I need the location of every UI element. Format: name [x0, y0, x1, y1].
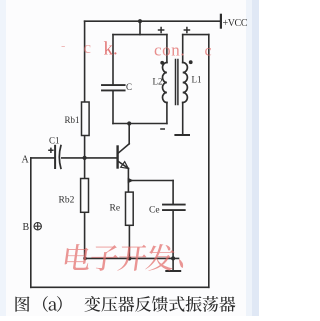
wire: rail drop to tank top: [139, 21, 141, 34]
wire: +VCC top rail: [85, 20, 221, 22]
watermark comma mark: [179, 259, 183, 268]
junction dot: Re/ground line: [127, 256, 131, 260]
resistor Rb1: [82, 102, 90, 136]
caption 图（a）变压器反馈式振荡器: [15, 296, 235, 312]
svg-text:L2: L2: [153, 77, 163, 87]
inductor L1 coil (4 bumps, bulge right): [183, 63, 188, 103]
transistor Q1 emitter arrowhead: [121, 162, 129, 169]
svg-text:k.: k.: [104, 39, 118, 60]
svg-text:C: C: [126, 82, 132, 92]
terminal B circled plus: [34, 223, 41, 230]
inductor L2 coil (4 bumps, bulge left): [163, 63, 167, 103]
wire: tank bottom: [113, 123, 167, 125]
svg-text:-: -: [61, 38, 65, 53]
wire: L1 bottom lead to ground bar: [182, 103, 184, 135]
svg-text:A: A: [22, 155, 30, 166]
svg-text:+VCC: +VCC: [223, 18, 248, 29]
wire: base node to transistor: [85, 157, 117, 159]
wire: L2 top lead: [166, 35, 168, 63]
wire: Ce top lead: [172, 181, 174, 205]
transistor Q1 emitter: [119, 162, 129, 169]
wire: Ce ground stub: [172, 258, 174, 271]
wire: tank left above C: [112, 35, 114, 85]
wire: emitter node to Ce: [128, 180, 173, 182]
resistor Re: [126, 192, 134, 225]
capacitor C plates: [102, 84, 125, 86]
svg-text:Rb2: Rb2: [59, 196, 75, 206]
ground bar under Ce: [166, 270, 180, 272]
plus mark at C1: [48, 148, 53, 153]
wire: Re bottom to ground line: [128, 225, 130, 258]
wire: Rb2 bottom to ground line: [84, 212, 86, 258]
wire: collector up to tank: [128, 124, 130, 144]
wire: Ce bottom lead: [172, 211, 174, 259]
junction dot: Ce/ground line: [171, 256, 175, 260]
polarity dot L2: [160, 61, 164, 65]
ground bar under L1: [175, 134, 189, 136]
wire: emitter down to Re: [127, 168, 129, 192]
capacitor Ce plates: [163, 204, 185, 206]
watermark 电子开发: [64, 244, 183, 271]
plus mark above L1: [184, 27, 191, 34]
wire: left drop from rail to Rb1: [84, 21, 86, 102]
capacitor C1 (polarized): straight plate: [54, 146, 56, 168]
VCC terminal bar: [220, 15, 222, 28]
svg-text:Re: Re: [110, 204, 121, 214]
svg-text:Rb1: Rb1: [65, 115, 80, 125]
svg-text:L1: L1: [192, 75, 202, 85]
wire: right branch down: [208, 35, 210, 288]
svg-text:Ce: Ce: [149, 206, 160, 216]
svg-text:B: B: [23, 222, 30, 233]
junction dot: collector/tank bottom: [127, 121, 131, 125]
junction dot: base node: [83, 156, 87, 160]
wire: tank top: [113, 34, 167, 36]
junction dot: rail/tank: [138, 19, 142, 23]
capacitor C1 curved plate: [59, 146, 61, 169]
svg-text:c: c: [84, 38, 92, 57]
wire: left branch A-B down: [30, 158, 32, 287]
wire: L1 top link: [183, 34, 209, 36]
wire: base node to Rb2: [84, 158, 86, 179]
svg-text:C1: C1: [49, 136, 60, 146]
wire: tank left below C: [112, 91, 114, 124]
minus mark below L2: [160, 128, 165, 130]
transistor Q1 base bar: [116, 147, 118, 168]
wire: L2 bottom lead: [166, 103, 168, 124]
wire: bottom rail: [31, 286, 209, 288]
resistor Rb2: [81, 179, 89, 213]
wire: Rb1 bottom to base node: [84, 136, 86, 158]
plus mark above L2: [158, 27, 165, 34]
polarity dot L1: [189, 60, 193, 64]
transformer core lines: [175, 60, 177, 105]
emitter node arrow: [128, 178, 134, 184]
wire: C1 to base node: [62, 157, 85, 159]
junction dot: Rb2/ground line: [83, 257, 87, 261]
wire: inner ground line: [85, 257, 179, 259]
transistor Q1 collector: [119, 144, 130, 153]
svg-text:c: c: [205, 42, 212, 59]
wire: A to C1: [31, 157, 54, 159]
wire: L1 top lead: [182, 35, 184, 63]
svg-text:con.: con.: [154, 40, 185, 59]
